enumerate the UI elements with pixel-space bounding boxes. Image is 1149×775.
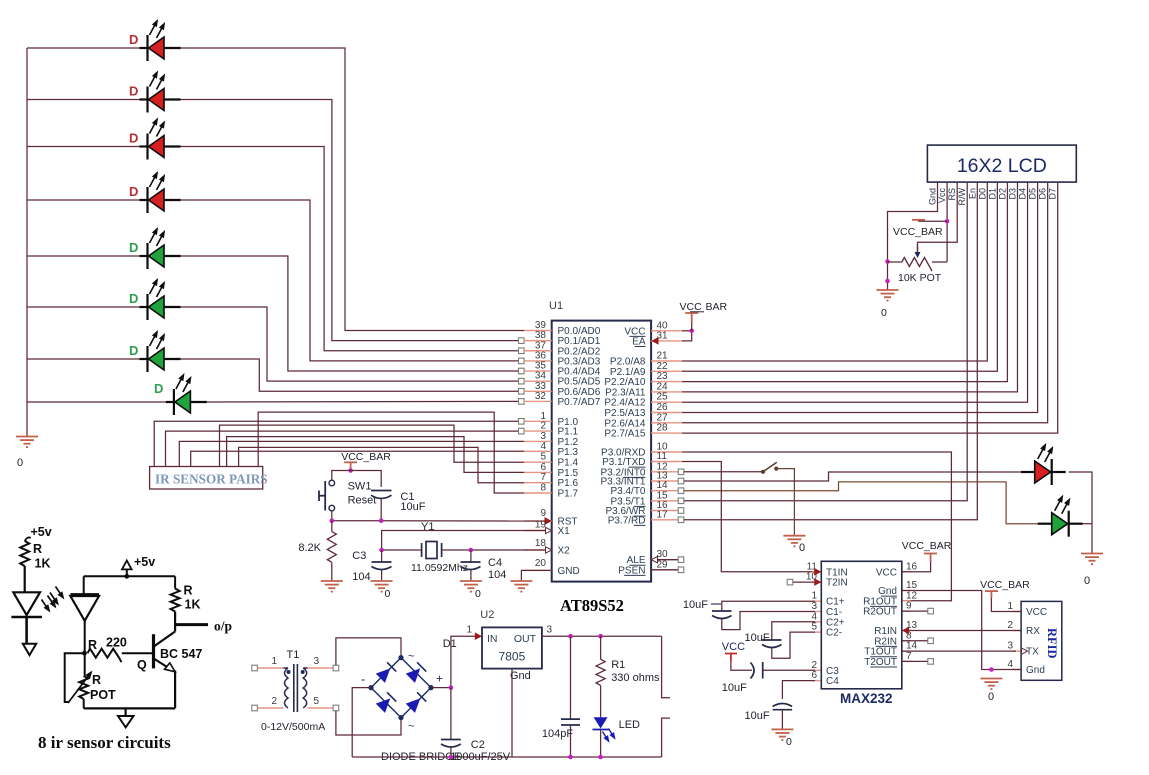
svg-text:R1: R1 [611, 659, 625, 671]
wire P2.3 pin 24 to LCD D3 [682, 182, 1017, 392]
pin 40 stub VCC [651, 330, 682, 332]
EA input arrow [651, 337, 658, 345]
MAX232 pin stubs right [902, 571, 911, 573]
node junction 104pF ground [568, 755, 573, 760]
svg-text:-: - [361, 672, 365, 687]
svg-text:330 ohms: 330 ohms [611, 672, 660, 684]
terminal square pin 2 [519, 428, 525, 434]
X1 pin arrow [546, 527, 552, 533]
ALE pin arrow [651, 557, 657, 563]
wire T1OUT to RFID TX [902, 650, 1016, 652]
bridge node left (-) [368, 685, 373, 690]
pin 5 stub P1.4 [524, 461, 552, 463]
svg-text:D4: D4 [1018, 188, 1028, 200]
svg-text:+5v: +5v [31, 525, 52, 539]
wire T1 pin1 [257, 667, 283, 669]
svg-text:D: D [129, 131, 138, 146]
transformer T1 terminal 1 [252, 665, 258, 671]
svg-text:LED: LED [619, 719, 640, 731]
svg-text:32: 32 [535, 391, 547, 402]
pin 37 stub P0.2/AD2 [524, 350, 552, 352]
wire P1.1 pin 2 to IR sensor pairs [166, 431, 519, 466]
wire P1.7 pin 8 to IR sensor pairs [258, 412, 524, 493]
sensor wire R220 to base [122, 652, 152, 654]
svg-text:POT: POT [90, 688, 116, 702]
svg-text:3: 3 [547, 625, 553, 636]
pin 27 stub P2.6/A14 [651, 422, 682, 424]
wire T1 pin2 [257, 707, 283, 709]
wire P3.4 pin 14 to green LED [684, 482, 1038, 524]
wire C3 to ground [381, 570, 383, 581]
svg-text:VCC: VCC [680, 301, 703, 313]
sensor wire R1K to collector / o-p [174, 612, 176, 632]
svg-text:0: 0 [786, 736, 792, 748]
LCD pin stub Gnd [888, 182, 938, 290]
svg-text:R: R [33, 542, 42, 556]
wire P2.7 pin 28 to LCD D7 [682, 182, 1058, 433]
svg-text:16: 16 [906, 561, 918, 572]
svg-text:28: 28 [657, 423, 669, 434]
pin 24 stub P2.3/A11 [651, 391, 682, 393]
IC U3 MAX232 body [821, 561, 902, 689]
sensor wire emitter down [174, 671, 176, 709]
svg-text:3: 3 [1007, 641, 1013, 652]
ground (right LEDs) [1081, 554, 1103, 565]
svg-text:EA: EA [632, 336, 646, 347]
wire LED D8 anode to P0.7 pin 32 [207, 400, 521, 403]
pin 36 stub P0.3/AD3 [524, 360, 552, 362]
pin 13 stub P3.3/INT1 [651, 480, 682, 482]
X2 pin arrow [546, 547, 552, 553]
wire connector return to rail [662, 718, 670, 757]
wire P3.1 pin 11 to MAX232 T1IN [682, 462, 815, 572]
pin 17 stub P3.7/RD [651, 519, 682, 521]
svg-text:0: 0 [17, 457, 23, 469]
svg-text:1K: 1K [185, 598, 201, 612]
node junction LCD gnd 2 [885, 279, 890, 284]
switch S2 contact right [774, 467, 778, 471]
pin 26 stub P2.5/A13 [651, 412, 682, 414]
svg-text:C4: C4 [826, 676, 839, 687]
node junction RST-C1 [379, 518, 384, 523]
T1IN input arrow [814, 568, 821, 576]
capacitor C6 10uF (C2+/C2-) [772, 622, 815, 640]
sensor resistor R 220 [88, 649, 122, 663]
svg-text:1: 1 [1007, 601, 1013, 612]
svg-text:P2.7/A15: P2.7/A15 [604, 429, 646, 440]
pin 39 stub P0.0/AD0 [524, 330, 552, 332]
transformer phase dot secondary [301, 670, 305, 674]
svg-text:0: 0 [1084, 575, 1090, 587]
wire VCC pin 40 to VCC_BAR [682, 330, 692, 332]
pin 28 stub P2.7/A15 [651, 432, 682, 434]
R1IN input arrow [902, 627, 909, 635]
wire VCC_BAR to RFID VCC [991, 598, 1021, 612]
power symbol VCC_BAR (U1) [685, 313, 698, 322]
svg-text:D1: D1 [443, 638, 457, 650]
svg-text:1K: 1K [35, 557, 51, 571]
svg-text:7805: 7805 [499, 650, 526, 664]
svg-text:R: R [92, 673, 101, 687]
node junction bridge+/C2 [449, 685, 454, 690]
svg-text:10K POT: 10K POT [898, 272, 942, 284]
svg-text:D: D [129, 32, 138, 47]
wire bus to LED D6 [27, 306, 140, 308]
switch SW1 top contact [329, 480, 335, 486]
capacitor C1 [371, 490, 392, 492]
sensor IR emitter LED [13, 592, 40, 615]
bridge node right (+) [428, 685, 433, 690]
svg-text:BC 547: BC 547 [160, 647, 202, 661]
wire P3.7 pin 17 to LCD En [684, 182, 977, 520]
pin 32 stub P0.7/AD7 [524, 400, 552, 402]
wire RST net to pin 9 [332, 520, 545, 522]
svg-text:Gnd: Gnd [510, 670, 531, 682]
terminal square pin 34 [519, 378, 525, 384]
wire GND pin 20 to ground [521, 570, 551, 581]
svg-text:IN: IN [487, 633, 498, 645]
svg-text:R: R [184, 584, 193, 598]
svg-text:10uF: 10uF [683, 599, 708, 611]
svg-text:Gnd: Gnd [1026, 665, 1045, 676]
svg-text:20: 20 [535, 558, 547, 569]
LED D4 (red) [140, 187, 181, 213]
wire bus to LED D8 [27, 401, 166, 403]
svg-text:BAR: BAR [706, 301, 728, 313]
svg-text:VCC: VCC [876, 567, 897, 578]
transistor emitter lead with arrow [155, 659, 172, 670]
transformer T1 secondary winding [303, 668, 307, 708]
wire switch to ground [776, 469, 794, 536]
pin 10 stub P3.0/RXD [651, 451, 682, 453]
svg-text:5: 5 [314, 696, 320, 707]
svg-text:U2: U2 [480, 609, 494, 621]
svg-text:9: 9 [906, 601, 912, 612]
wire P3.2 pin 12 to switch [684, 471, 763, 473]
svg-text:VCC: VCC [1026, 607, 1047, 618]
wire P1.6 pin 7 to IR sensor pairs [239, 447, 524, 482]
pin 31 stub EA [651, 340, 682, 342]
terminal square R2IN [928, 638, 934, 644]
wire LED D1 anode to P0.0 pin 39 [181, 48, 525, 331]
sensor resistor R 1K (left) [20, 541, 29, 566]
svg-text:0: 0 [799, 542, 805, 554]
terminal square T2OUT [928, 659, 934, 665]
ground (C3) [371, 581, 393, 592]
transistor collector lead [155, 632, 176, 647]
wire P2.4 pin 25 to LCD D4 [682, 182, 1028, 402]
resistor 8.2K [331, 521, 333, 532]
svg-text:8: 8 [540, 483, 546, 494]
transformer T1 primary winding [285, 668, 289, 708]
svg-text:P0.7/AD7: P0.7/AD7 [558, 397, 601, 408]
pin 7 stub P1.6 [524, 482, 552, 484]
svg-text:AT89S52: AT89S52 [560, 596, 624, 615]
svg-text:16X2 LCD: 16X2 LCD [957, 155, 1047, 177]
wire P1.2 pin 3 to IR sensor pairs [179, 441, 524, 466]
transistor Q BC547 base bar [152, 634, 155, 668]
wire P2.2 pin 23 to LCD D2 [682, 182, 1007, 382]
wire crystal to X2 [442, 549, 546, 551]
resistor R1 330 ohms [600, 636, 602, 659]
wire T1 pin3 [308, 667, 334, 669]
wire bus to LED D3 [27, 146, 140, 148]
svg-text:D0: D0 [977, 188, 987, 200]
wire LED D6 anode to P0.5 pin 34 [181, 307, 522, 381]
bridge diode D4 (lower-left) [376, 692, 397, 713]
svg-text:VCC_BAR: VCC_BAR [893, 226, 943, 238]
node junction LCD Vcc [945, 219, 950, 224]
wire T1 pin5 [308, 707, 334, 709]
svg-text:~: ~ [408, 721, 414, 733]
sensor potentiometer R POT [79, 676, 88, 699]
capacitor C4 [470, 550, 472, 562]
power symbol VCC_BAR (MAX232) [924, 554, 937, 562]
wire pot right to Vcc net [932, 261, 947, 263]
ground (C8) [771, 729, 793, 740]
svg-text:0: 0 [385, 588, 391, 600]
bridge node top (~) [398, 655, 403, 660]
regulator input arrow [475, 632, 482, 640]
LED green (indicator right) [1038, 511, 1083, 537]
switch SW1 plunger [319, 481, 325, 511]
svg-text:MAX232: MAX232 [840, 691, 893, 706]
RFID pin stubs [1013, 611, 1022, 613]
ground (8.2K) [321, 581, 343, 592]
pin 19 stub X1 [524, 530, 552, 532]
capacitor C5 10uF (C1+/C1-) [722, 601, 815, 611]
pin 18 stub X2 [524, 549, 552, 551]
node junction RST-switch [330, 518, 335, 523]
IR SENSOR PAIRS box [150, 467, 263, 490]
terminal square pin 33 [519, 388, 525, 394]
display 16X2 LCD box [927, 145, 1076, 182]
sensor ground (open triangle left) [23, 644, 36, 655]
svg-text:SW1: SW1 [348, 481, 372, 493]
wire P3.5 pin 15 to LCD R/W [684, 182, 967, 501]
svg-text:5: 5 [811, 622, 817, 633]
node junction 104pF [568, 634, 573, 639]
svg-text:1: 1 [271, 656, 277, 667]
LCD pin stub RS to pot wiper [918, 182, 958, 252]
svg-text:C4: C4 [488, 557, 502, 569]
svg-text:X2: X2 [558, 546, 571, 557]
wire VCC_BAR to switch and C1 [332, 471, 381, 488]
wire P3.0 pin 10 to MAX232 R1OUT [682, 452, 951, 601]
node junction R1 [598, 634, 603, 639]
svg-text:D7: D7 [1048, 188, 1058, 200]
wire bus to LED D4 [27, 199, 140, 201]
diode bridge frame [371, 658, 431, 718]
sensor bottom rail [84, 707, 175, 709]
pin 30 stub ALE [651, 559, 682, 561]
transformer T1 terminal 2 [252, 705, 258, 711]
wire P1.3 pin 4 to IR sensor pairs [191, 451, 524, 466]
svg-text:o/p: o/p [214, 619, 232, 634]
pin 35 stub P0.4/AD4 [524, 370, 552, 372]
pin 11 stub P3.1/TXD [651, 461, 682, 463]
LED D7 (green) [140, 346, 181, 372]
svg-text:RFID: RFID [1045, 628, 1059, 659]
svg-text:8.2K: 8.2K [298, 542, 321, 554]
svg-text:VCC_BAR: VCC_BAR [980, 579, 1030, 591]
regulator U2 7805 body [482, 627, 542, 668]
svg-text:D: D [129, 240, 138, 255]
terminal square T2IN [793, 581, 815, 583]
wire T1 pin3 to bridge top [336, 638, 401, 665]
sensor +5v arrow mid [122, 561, 132, 570]
transformer T1 terminal 5 [333, 705, 339, 711]
svg-text:P3.7/RD: P3.7/RD [608, 515, 646, 526]
svg-text:D: D [129, 184, 138, 199]
node junction crystal-C4 [469, 548, 474, 553]
ground (LCD) [877, 290, 899, 301]
svg-text:OUT: OUT [514, 633, 537, 645]
wire R2OUT to square [902, 610, 928, 612]
wire P1.4 pin 5 to IR sensor pairs [220, 425, 525, 466]
wire X1 to crystal [382, 531, 546, 551]
sensor wire LED to ground [25, 617, 28, 644]
node junction C2 ground [449, 755, 454, 760]
svg-text:VCC_BAR: VCC_BAR [341, 451, 391, 463]
potentiometer wiper arrow [915, 252, 921, 258]
node junction crystal-C3 [379, 548, 384, 553]
svg-text:1000uF/25V: 1000uF/25V [450, 751, 511, 763]
pin 12 stub P3.2/INT0 [651, 471, 682, 473]
sensor +5v rail wire [84, 575, 175, 577]
transformer phase dot primary [287, 670, 291, 674]
terminal square pin 30 ALE [658, 559, 679, 561]
pin 20 stub GND [524, 569, 552, 571]
wire LED D3 anode to P0.2 pin 37 [181, 147, 522, 351]
pin 14 stub P3.4/T0 [651, 490, 682, 492]
wire C1 bottom to RST net [380, 499, 382, 521]
svg-text:220: 220 [106, 636, 127, 650]
wire bridge + to regulator input [431, 636, 475, 687]
svg-text:29: 29 [657, 559, 669, 570]
wire LED D5 anode to P0.4 pin 35 [181, 256, 522, 371]
node junction RFID gnd [989, 667, 994, 672]
terminal square pin 36 [519, 358, 525, 364]
svg-text:4: 4 [540, 441, 546, 452]
bridge diode D2 (upper-left) [376, 662, 397, 683]
pin 23 stub P2.2/A10 [651, 381, 682, 383]
wire switch bottom to RST net [331, 511, 333, 521]
svg-text:104pF: 104pF [542, 728, 573, 740]
svg-text:P1.3: P1.3 [558, 447, 579, 458]
svg-text:D1: D1 [987, 188, 997, 200]
switch SW1 bottom contact [329, 505, 335, 511]
terminal square pin 29 PSEN [651, 569, 678, 571]
node junction VCC/EA [689, 329, 694, 334]
svg-text:U1: U1 [549, 300, 563, 312]
pin 3 stub P1.2 [524, 440, 552, 442]
svg-text:11.0592Mhz: 11.0592Mhz [411, 562, 468, 574]
wire P2.1 pin 22 to LCD D1 [682, 182, 997, 371]
svg-text:T1: T1 [287, 649, 300, 661]
wire P1.5 pin 6 to IR sensor pairs [227, 437, 524, 473]
svg-text:TX: TX [1026, 647, 1039, 658]
wire LED D2 anode to P0.1 pin 38 [181, 100, 522, 341]
pin 4 stub P1.3 [524, 450, 552, 452]
sensor wire pot bottom to rail [83, 699, 85, 708]
svg-text:GND: GND [558, 566, 580, 577]
bridge diode D3 (upper-right) [406, 662, 427, 683]
wire R2IN to square [902, 640, 928, 642]
svg-text:D: D [129, 291, 138, 306]
sensor wire pot wiper feedback [65, 653, 85, 702]
svg-text:D2: D2 [997, 188, 1007, 200]
TX arrow (RFID) [1022, 648, 1028, 654]
svg-text:IR SENSOR PAIRS: IR SENSOR PAIRS [155, 472, 268, 487]
crystal Y1 [422, 542, 442, 559]
svg-text:+: + [436, 672, 443, 686]
wire red LED cathode to ground [1069, 472, 1092, 554]
svg-text:10uF: 10uF [722, 682, 747, 694]
ground rail (power supply) [352, 756, 661, 758]
wire +5V rail drop to connector [662, 636, 670, 698]
LCD pin stub Vcc [946, 182, 948, 262]
svg-text:R2OUT: R2OUT [863, 607, 897, 618]
pin 33 stub P0.6/AD6 [524, 390, 552, 392]
svg-text:D: D [129, 84, 138, 99]
wire T2OUT to square [902, 660, 928, 662]
LED D1 (red) [140, 35, 181, 61]
switch S2 lever [763, 462, 777, 472]
wire T1 pin5 to bridge bottom [336, 711, 401, 735]
svg-text:P1.7: P1.7 [558, 489, 579, 500]
svg-text:1: 1 [466, 625, 472, 636]
pin 22 stub P2.1/A9 [651, 370, 682, 372]
terminal square pin 37 [519, 348, 525, 354]
svg-text:X1: X1 [558, 526, 571, 537]
svg-text:18: 18 [535, 538, 547, 549]
svg-text:RS: RS [947, 188, 957, 201]
terminal square pin 35 [519, 368, 525, 374]
wire 8.2K to ground [331, 562, 333, 581]
svg-text:Gnd: Gnd [928, 188, 938, 205]
wire green LED cathode to ground [1083, 523, 1092, 525]
svg-text:VCC_BAR: VCC_BAR [902, 540, 952, 552]
LED power indicator (blue) [594, 717, 608, 728]
svg-text:D: D [129, 343, 138, 358]
power symbol VCC_BAR (RFID) [985, 591, 998, 598]
transformer T1 terminal 3 [333, 665, 339, 671]
svg-text:104: 104 [352, 571, 370, 583]
wire bus to LED D2 [27, 99, 140, 101]
power symbol VCC_BAR (LCD) [912, 220, 925, 222]
wire bus to LED D1 [27, 47, 140, 49]
svg-text:D5: D5 [1028, 188, 1038, 200]
wire LED D4 anode to P0.3 pin 36 [181, 200, 522, 361]
wire R1IN to RFID RX [909, 630, 1021, 632]
pin 8 stub P1.7 [524, 492, 552, 494]
capacitor C8 10uF (C4 to gnd) [782, 681, 815, 699]
svg-text:9: 9 [540, 508, 546, 519]
svg-text:VCC: VCC [722, 641, 745, 653]
pin 2 stub P1.1 [524, 430, 552, 432]
node junction LCD gnd / pot [885, 259, 890, 264]
transformer T1 core [294, 664, 298, 712]
pin 34 stub P0.5/AD5 [524, 380, 552, 382]
LED D8 (green) [166, 389, 207, 415]
svg-text:10uF: 10uF [745, 632, 770, 644]
svg-text:7: 7 [906, 651, 912, 662]
svg-text:~: ~ [408, 651, 414, 663]
svg-text:+5v: +5v [134, 555, 155, 569]
svg-text:4: 4 [1007, 659, 1013, 670]
LED D3 (red) [140, 134, 181, 160]
